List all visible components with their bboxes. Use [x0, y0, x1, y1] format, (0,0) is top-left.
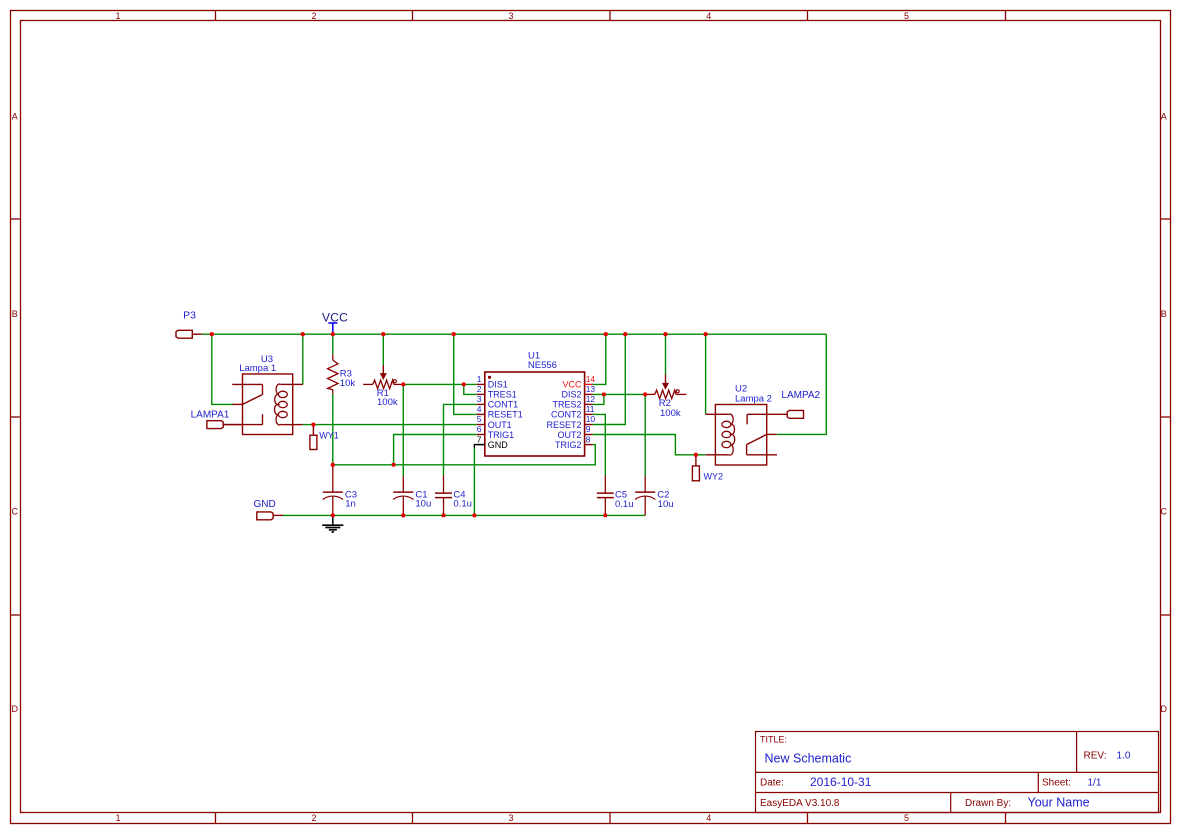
- svg-text:7: 7: [477, 434, 482, 444]
- svg-text:0.1u: 0.1u: [615, 499, 634, 510]
- svg-text:TRES1: TRES1: [488, 390, 517, 400]
- svg-text:4: 4: [477, 404, 482, 414]
- svg-text:1: 1: [115, 813, 120, 823]
- svg-text:1n: 1n: [345, 499, 356, 510]
- svg-text:11: 11: [586, 404, 595, 414]
- svg-text:3: 3: [508, 11, 513, 21]
- svg-text:CONT1: CONT1: [488, 400, 519, 410]
- svg-text:RESET2: RESET2: [546, 420, 581, 430]
- svg-text:10u: 10u: [415, 499, 431, 510]
- svg-text:1.0: 1.0: [1117, 751, 1131, 762]
- svg-text:GND: GND: [488, 440, 509, 450]
- svg-text:1: 1: [477, 374, 482, 384]
- svg-text:2: 2: [311, 813, 316, 823]
- svg-text:WY2: WY2: [704, 471, 724, 481]
- svg-text:OUT1: OUT1: [488, 420, 512, 430]
- svg-text:8: 8: [586, 434, 591, 444]
- svg-text:DIS2: DIS2: [561, 390, 581, 400]
- svg-text:5: 5: [904, 813, 909, 823]
- svg-text:4: 4: [706, 813, 711, 823]
- svg-text:3: 3: [508, 813, 513, 823]
- svg-text:OUT2: OUT2: [557, 430, 581, 440]
- svg-text:14: 14: [586, 374, 596, 384]
- svg-text:C: C: [1161, 507, 1168, 517]
- svg-text:LAMPA1: LAMPA1: [191, 410, 230, 421]
- svg-text:12: 12: [586, 394, 596, 404]
- svg-text:2: 2: [477, 384, 482, 394]
- svg-text:Date:: Date:: [760, 778, 784, 789]
- svg-text:REV:: REV:: [1084, 751, 1107, 762]
- svg-text:NE556: NE556: [528, 360, 557, 371]
- svg-text:A: A: [12, 112, 18, 122]
- svg-text:13: 13: [586, 384, 596, 394]
- svg-text:3: 3: [477, 394, 482, 404]
- svg-text:1: 1: [115, 11, 120, 21]
- svg-text:Lampa 2: Lampa 2: [735, 394, 772, 405]
- svg-text:10k: 10k: [340, 378, 356, 389]
- svg-text:Your Name: Your Name: [1028, 796, 1090, 810]
- svg-text:Drawn By:: Drawn By:: [965, 798, 1011, 809]
- svg-text:2: 2: [311, 11, 316, 21]
- svg-text:RESET1: RESET1: [488, 410, 523, 420]
- svg-text:C: C: [12, 507, 19, 517]
- svg-text:1/1: 1/1: [1088, 778, 1102, 789]
- svg-text:VCC: VCC: [322, 310, 348, 324]
- svg-text:TRES2: TRES2: [552, 400, 581, 410]
- svg-text:TRIG1: TRIG1: [488, 430, 515, 440]
- svg-text:100k: 100k: [377, 397, 398, 408]
- svg-text:Sheet:: Sheet:: [1042, 778, 1071, 789]
- svg-text:TRIG2: TRIG2: [555, 440, 582, 450]
- svg-text:2016-10-31: 2016-10-31: [810, 775, 872, 789]
- svg-text:0.1u: 0.1u: [453, 499, 472, 510]
- svg-text:D: D: [12, 704, 19, 714]
- svg-text:P3: P3: [183, 309, 196, 321]
- svg-text:Lampa 1: Lampa 1: [239, 363, 276, 374]
- svg-text:VCC: VCC: [562, 380, 582, 390]
- svg-text:9: 9: [586, 424, 591, 434]
- svg-text:5: 5: [904, 11, 909, 21]
- svg-text:New Schematic: New Schematic: [765, 752, 852, 766]
- svg-text:5: 5: [477, 414, 482, 424]
- svg-text:B: B: [1161, 309, 1167, 319]
- svg-text:4: 4: [706, 11, 711, 21]
- svg-text:A: A: [1161, 112, 1167, 122]
- svg-text:EasyEDA V3.10.8: EasyEDA V3.10.8: [760, 798, 840, 809]
- svg-text:WY1: WY1: [319, 431, 339, 441]
- svg-text:TITLE:: TITLE:: [760, 735, 787, 745]
- svg-text:10u: 10u: [658, 499, 674, 510]
- svg-text:100k: 100k: [660, 408, 681, 419]
- svg-text:10: 10: [586, 414, 596, 424]
- svg-text:CONT2: CONT2: [551, 410, 582, 420]
- svg-text:LAMPA2: LAMPA2: [781, 390, 820, 401]
- svg-text:B: B: [12, 309, 18, 319]
- svg-text:D: D: [1161, 704, 1168, 714]
- svg-text:GND: GND: [254, 499, 276, 510]
- svg-text:6: 6: [477, 424, 482, 434]
- svg-text:DIS1: DIS1: [488, 380, 508, 390]
